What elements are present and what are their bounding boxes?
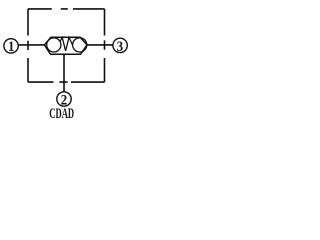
pin number 3 — [117, 39, 123, 55]
port 1 terminal — [4, 39, 18, 53]
pin number 2 — [61, 93, 67, 109]
pin number 1 — [8, 39, 14, 55]
cartridge enclosure (dashed boundary) — [28, 9, 105, 82]
svg-text:3: 3 — [117, 39, 123, 55]
model label CDAD — [49, 106, 74, 122]
port 3 terminal — [113, 38, 127, 52]
wire: port 1 to valve inlet — [18, 44, 44, 46]
port 2 terminal — [57, 92, 71, 106]
shuttle valve CDAD body (hexagon) — [44, 37, 87, 54]
ball, right seat — [73, 38, 87, 52]
svg-text:1: 1 — [8, 39, 14, 55]
wire: valve right vertex to port 3 — [87, 44, 113, 46]
spring — [60, 37, 72, 50]
svg-text:CDAD: CDAD — [49, 106, 74, 119]
ball, left seat — [47, 38, 61, 52]
wire: valve bottom to port 2 — [63, 54, 65, 92]
